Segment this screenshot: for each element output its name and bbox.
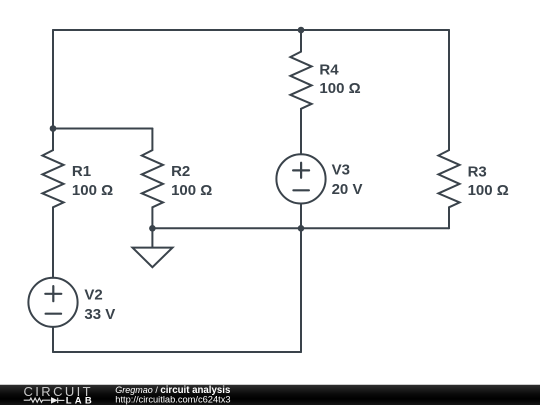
svg-text:R1: R1 (72, 163, 91, 180)
svg-text:33 V: 33 V (84, 306, 115, 323)
svg-text:LAB: LAB (66, 396, 95, 405)
svg-text:R2: R2 (171, 163, 190, 180)
svg-text:100 Ω: 100 Ω (468, 182, 509, 199)
svg-text:20 V: 20 V (332, 181, 363, 198)
svg-text:R4: R4 (319, 61, 339, 78)
svg-text:100 Ω: 100 Ω (171, 182, 212, 199)
svg-text:http://circuitlab.com/c624tx3: http://circuitlab.com/c624tx3 (115, 395, 230, 405)
svg-text:V2: V2 (84, 286, 102, 303)
svg-text:R3: R3 (468, 164, 487, 181)
svg-text:100 Ω: 100 Ω (319, 80, 360, 97)
svg-text:V3: V3 (332, 162, 350, 179)
svg-text:100 Ω: 100 Ω (72, 182, 113, 199)
